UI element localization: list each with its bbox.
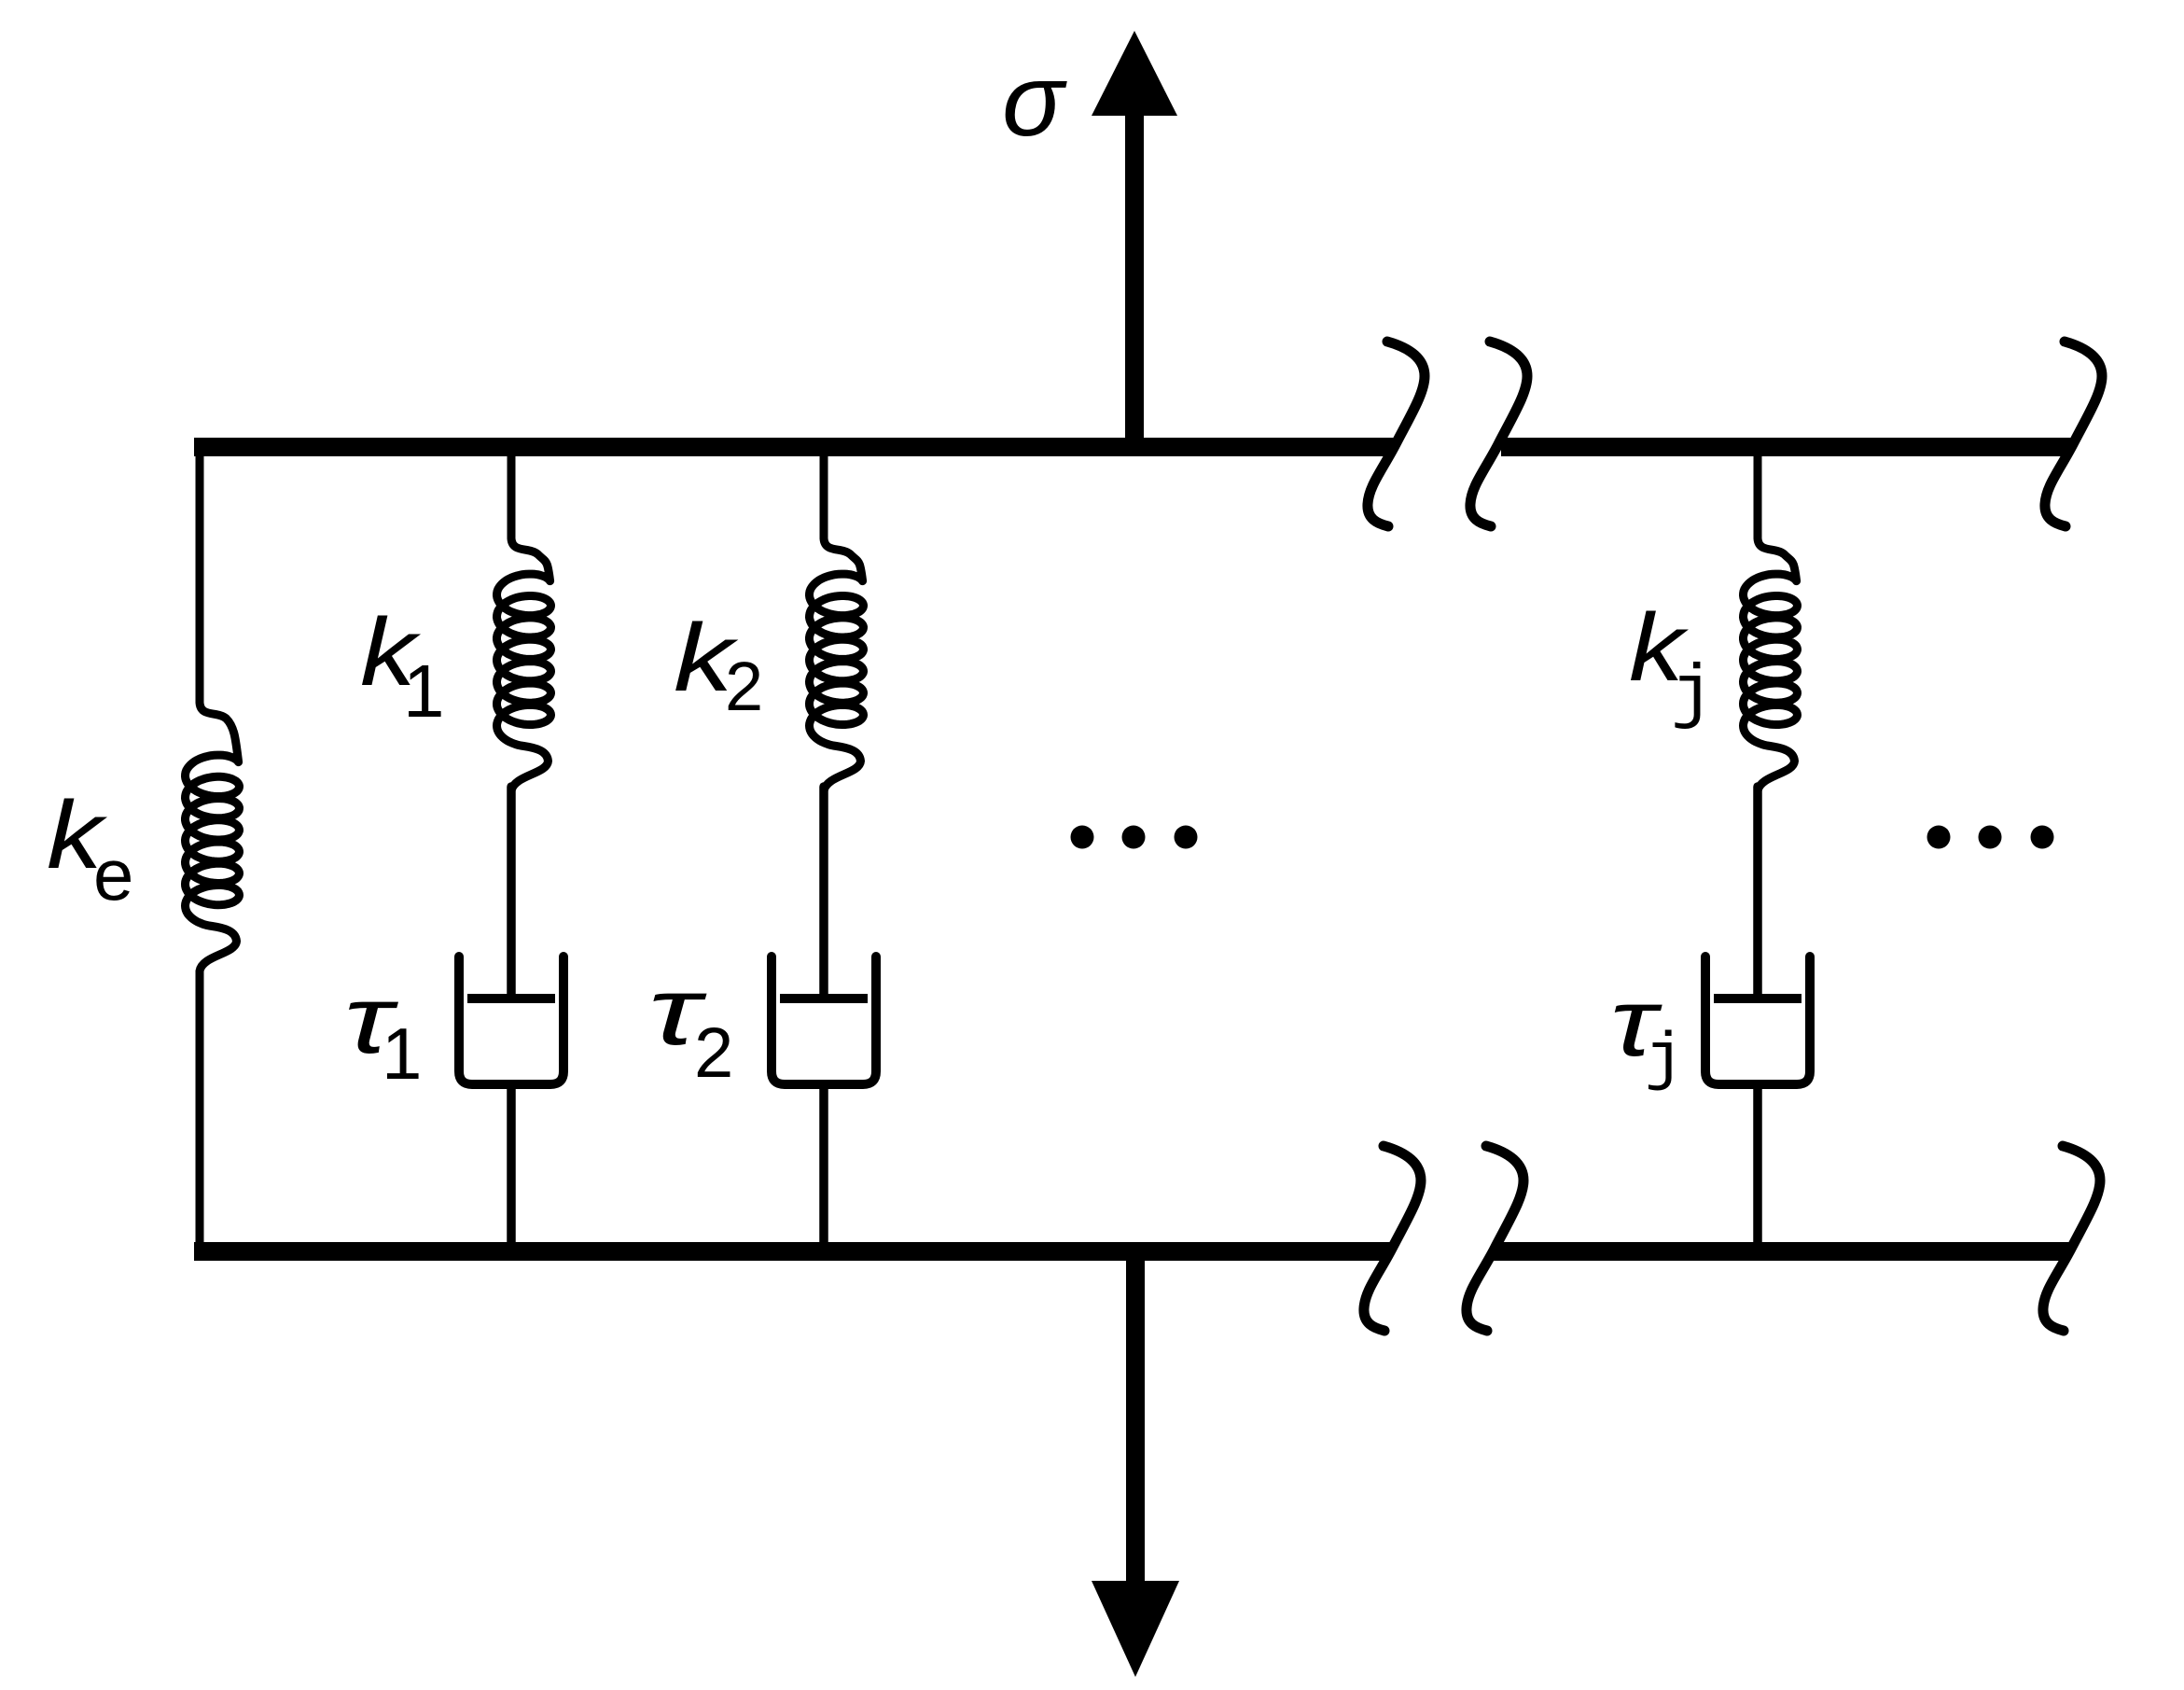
label tau_j — [1610, 969, 1684, 1097]
svg-text:1: 1 — [382, 1013, 422, 1095]
bottom break mark 2 — [1467, 1146, 1523, 1331]
label tau_2 — [648, 957, 733, 1093]
svg-text:j: j — [1671, 655, 1714, 736]
svg-text:σ: σ — [1002, 43, 1067, 158]
dashpot tau1 piston rod — [507, 787, 516, 995]
dashpot tau1 piston plate — [467, 994, 555, 1003]
dashpot tau1 cylinder cup — [459, 957, 563, 1084]
ellipsis dots right of branch j — [1927, 826, 2054, 849]
bottom break mark 1 — [1364, 1146, 1421, 1331]
label sigma (stress) — [1002, 43, 1067, 158]
label k_j — [1629, 594, 1714, 736]
svg-text:2: 2 — [694, 1013, 733, 1093]
wire top bar right segment — [1501, 438, 2072, 456]
wire below dashpot tau1 — [507, 1084, 516, 1251]
svg-text:e: e — [93, 833, 133, 915]
label k_e — [47, 781, 133, 915]
stress arrow down — [1092, 1251, 1179, 1677]
wire bottom bar left segment — [194, 1242, 1390, 1261]
wire top bar left segment — [194, 438, 1394, 456]
svg-text:j: j — [1645, 1024, 1684, 1097]
spring kj — [1744, 447, 1798, 791]
bottom-right break mark — [2043, 1146, 2100, 1331]
wire below dashpot tau2 — [819, 1084, 828, 1251]
label k_2 — [674, 604, 763, 725]
label tau_1 — [344, 966, 422, 1095]
svg-text:2: 2 — [725, 648, 763, 725]
ellipsis dots between branch 2 and branch j — [1071, 826, 1198, 849]
dashpot tau2 piston plate — [780, 994, 868, 1003]
dashpot tauj piston plate — [1714, 994, 1801, 1003]
spring ke (left equilibrium branch) — [186, 447, 240, 1251]
dashpot tau2 cylinder cup — [772, 957, 876, 1084]
top break mark 2 — [1470, 342, 1527, 526]
dashpot tau2 piston rod — [819, 787, 828, 995]
stress arrow up (sigma) — [1092, 31, 1177, 447]
label k_1 — [360, 598, 445, 733]
spring k2 — [810, 447, 864, 791]
top break mark 1 — [1368, 342, 1425, 526]
spring k1 — [497, 447, 551, 791]
wire below dashpot tauj — [1753, 1084, 1762, 1251]
wire bottom bar right segment — [1493, 1242, 2069, 1261]
dashpot tauj piston rod — [1753, 787, 1762, 995]
dashpot tauj cylinder cup — [1705, 957, 1810, 1084]
svg-text:1: 1 — [403, 649, 445, 733]
top-right break mark — [2045, 342, 2102, 526]
